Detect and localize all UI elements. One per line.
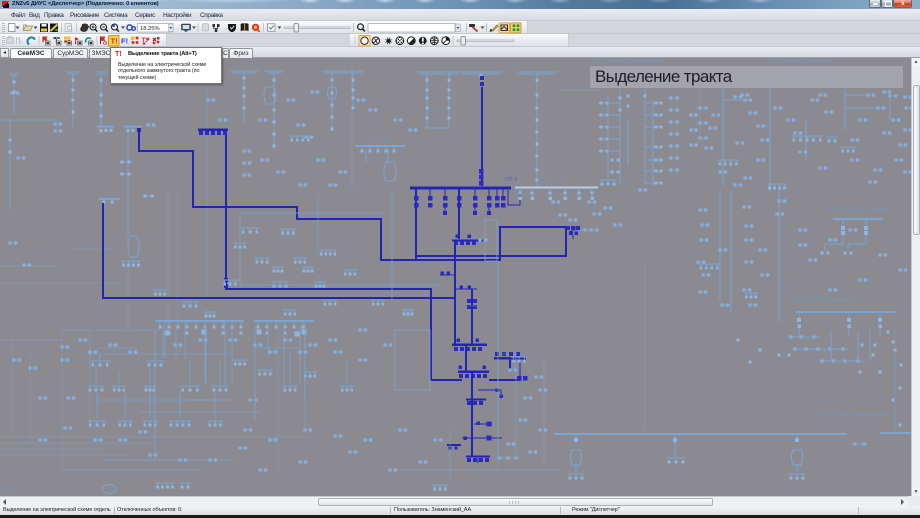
cluster C-Z2 — [826, 137, 838, 142]
switch pairs right-mid — [696, 200, 908, 307]
cluster C-M-4 — [293, 258, 307, 263]
cluster C-N2 — [788, 474, 806, 479]
cluster C-Z5 — [767, 184, 787, 189]
disconnector pair P4 — [474, 421, 492, 426]
svg-text:яч.3: яч.3 — [585, 126, 592, 130]
disconnector pair P2 — [455, 285, 477, 289]
cluster C-Z3 — [840, 147, 856, 152]
cluster C-M-6 — [271, 282, 289, 287]
wire tract vertical trunk — [454, 241, 456, 344]
cluster C-M-14 — [371, 300, 385, 305]
wire tract feed from 110kV via T1 — [481, 87, 483, 186]
cluster C-M-8 — [343, 270, 357, 275]
cluster C-D1-1 — [146, 361, 164, 366]
bus RP-1 feeders down — [98, 325, 307, 400]
wire trunk T13 — [471, 373, 473, 399]
cluster C-G4 — [121, 261, 141, 266]
cluster C-M17 — [319, 250, 337, 255]
cluster C-D2-5 — [257, 370, 273, 375]
cluster C-D2-0 — [87, 421, 107, 426]
generator G2 hexagon — [328, 87, 337, 99]
switch pairs near RP-5 right — [551, 189, 648, 227]
transformer bay TB3 — [792, 434, 803, 472]
title bar — [0, 0, 920, 9]
svg-text:F!: F! — [121, 37, 128, 46]
wire faint grid horizontals — [0, 90, 600, 460]
substation mesh top-right of Novoannenskaya — [778, 330, 890, 363]
station Elevatornaya switchgear — [585, 89, 709, 185]
vertical scrollbar — [911, 58, 920, 496]
cluster C-D2-4 — [207, 421, 223, 426]
cluster C-M-3 — [254, 258, 270, 263]
left column risers — [0, 120, 60, 210]
switch pairs top-left — [8, 91, 418, 267]
switch pairs Zavodskaya extra — [733, 88, 913, 186]
cluster C-M-0 — [240, 228, 260, 233]
svg-text:План ТЭ: План ТЭ — [468, 279, 484, 284]
wire faint grid verticals — [12, 60, 700, 470]
bus B1b 6kV with taps — [124, 127, 142, 132]
wire tract arm B from bus B2 — [103, 203, 455, 298]
svg-text:РП-5: РП-5 — [505, 177, 518, 183]
bus B1a 6kV with taps — [97, 127, 114, 132]
cluster C-B3b — [432, 485, 448, 490]
cluster C-E1b — [599, 180, 617, 185]
cluster C-D2-7 — [233, 360, 247, 365]
cluster C-D1-4 — [144, 386, 156, 391]
svg-text:РП-1: РП-1 — [2, 488, 14, 494]
cluster C-D1-7 — [282, 386, 298, 391]
busbar RP-5 section 1 (selected) — [410, 186, 511, 189]
node riser wires Zavodskaya — [723, 95, 878, 152]
mesh extras bottom-right — [737, 330, 903, 430]
wire tract arm C riser from bus T16 — [226, 131, 431, 380]
breaker cluster Q1 below busbar — [452, 190, 488, 246]
feeder F1 10kV — [66, 72, 80, 127]
oval machine symbol — [102, 485, 116, 494]
generator G4 hexagon — [128, 236, 139, 257]
bus T16 small selected bus — [198, 129, 228, 135]
feeder risers right-mid — [720, 188, 779, 322]
light risers center-bottom — [498, 261, 516, 460]
svg-text:ПС 110/10 кВ "Элеваторная": ПС 110/10 кВ "Элеваторная" — [595, 59, 666, 65]
cluster C-D1-5 — [179, 386, 201, 391]
tie wires lower-left — [0, 330, 230, 460]
cluster C-N1 — [567, 474, 585, 479]
wire faint risers mid — [318, 190, 392, 300]
cluster C-Z1 — [791, 136, 824, 141]
svg-text:РП УкЗ: РП УкЗ — [371, 138, 391, 144]
cluster C-R1 — [698, 264, 720, 269]
feeder F4 10kV — [265, 71, 284, 149]
pair PL1 — [120, 161, 131, 164]
cluster C-M-11 — [181, 302, 199, 307]
breaker minibus P5 — [447, 444, 461, 450]
menu bar — [0, 9, 920, 21]
wire tract busbar drop join — [415, 189, 417, 259]
wire stub right of T11 — [478, 390, 501, 394]
cluster C-M19 — [272, 267, 284, 272]
bus T12 with side taps — [489, 352, 527, 380]
cluster C-M-10 — [283, 310, 297, 315]
bus RP UkZ — [355, 138, 405, 162]
cluster C-CB1 — [511, 357, 527, 362]
enclosure frame E3 big — [240, 213, 441, 285]
wire tract arm A from bus B1 — [137, 128, 141, 132]
station Novoannenskaya main bus — [554, 433, 911, 434]
cluster C-M-9 — [322, 300, 338, 305]
bus B2 feed point of highlighted path — [99, 199, 120, 204]
feeder F10 bus Elevator right — [517, 72, 557, 186]
toolbar row 1 — [0, 21, 920, 34]
svg-text:План ТЭ: План ТЭ — [468, 303, 484, 308]
cluster C-M-13 — [153, 290, 167, 295]
jumper between feeders — [508, 190, 520, 205]
generator G1 hexagon — [264, 87, 276, 104]
cluster C-R2 — [744, 293, 758, 298]
tooltip — [110, 47, 222, 84]
svg-text:яч.5: яч.5 — [585, 150, 592, 154]
feeder F5 double bay — [322, 71, 364, 131]
cluster C-B1 — [155, 483, 175, 488]
cluster C-D2-2 — [142, 421, 158, 426]
switch pairs lower area — [12, 329, 548, 472]
cluster C-D2-6 — [303, 372, 317, 377]
bus T13b — [466, 399, 486, 406]
cluster C-Z4 — [717, 160, 739, 165]
tab bar — [0, 47, 920, 58]
feeder F2 10kV — [94, 72, 108, 134]
bus RP-5 section 2 pale — [515, 179, 598, 200]
cluster C-M18 — [302, 267, 314, 272]
wire riser to G4 — [127, 131, 129, 236]
station Ehovskaya-2 bus — [796, 312, 897, 336]
pair PL3 — [143, 195, 154, 198]
wire trunk T14 — [471, 401, 473, 457]
pair PL2 — [120, 173, 131, 176]
svg-text:ПС 110/10 кВ "Еховская -2": ПС 110/10 кВ "Еховская -2" — [792, 297, 857, 303]
cluster C-M-2 — [233, 243, 247, 248]
svg-text:ПС 110/35/10 кВ "Родники": ПС 110/35/10 кВ "Родники" — [826, 207, 890, 213]
bus RP-1 section 2 — [254, 321, 314, 335]
feeder F9 bus Elevator left — [460, 72, 502, 86]
feeder F3 10kV — [230, 71, 258, 123]
cluster C-M-12 — [204, 312, 216, 317]
terminal bus T14b — [466, 456, 519, 464]
svg-text:Т-2: Т-2 — [860, 239, 866, 243]
tie line with end switches — [462, 436, 502, 441]
svg-text:РП-4: РП-4 — [427, 109, 441, 115]
cluster C-M-1 — [280, 229, 296, 234]
bus T9 RP-5 10kV — [452, 338, 487, 351]
wire trunk T10 — [465, 346, 467, 371]
cluster C-D1-2 — [87, 386, 105, 391]
wire faint lower ties — [400, 428, 560, 480]
svg-text:яч.1: яч.1 — [585, 102, 592, 106]
svg-text:ПС 110/10 кВ "Заводская": ПС 110/10 кВ "Заводская" — [770, 59, 832, 65]
svg-text:T!: T! — [111, 37, 118, 46]
enclosure frame E2 — [395, 330, 430, 390]
wire tract loop return H1 — [416, 228, 566, 256]
horizontal scrollbar — [0, 496, 908, 506]
busbar RP-5 feeders with breakers — [414, 189, 506, 215]
cluster C-D1-0 — [89, 361, 111, 366]
transformer bay TB2 — [666, 434, 686, 464]
svg-text:2 секция 10 кВ: 2 секция 10 кВ — [536, 179, 565, 184]
coupling pair right — [851, 443, 868, 446]
svg-text:18.25%: 18.25% — [140, 26, 160, 32]
bus T11 — [458, 365, 489, 378]
cluster C-D1-3 — [112, 386, 126, 391]
disconnector pair P1 — [440, 271, 455, 275]
node switch cluster T18 — [566, 226, 599, 239]
feeder ladder squares — [72, 95, 622, 158]
transformer bay TB1 — [571, 434, 582, 472]
cluster C-D2-3 — [168, 421, 192, 426]
svg-text:Т-1: Т-1 — [836, 239, 842, 243]
highlight band — [590, 66, 903, 88]
bus RP-1 section 1 — [155, 321, 244, 335]
station Zavodskaya switchgear — [704, 88, 914, 192]
breaker stack P3 — [467, 299, 477, 309]
wire tract vertical trunk 2 — [471, 289, 473, 345]
cluster C-M-5 — [222, 280, 238, 285]
cluster C-M-7 — [314, 282, 326, 287]
generator G3 hexagon — [384, 162, 396, 181]
cluster C-D2-1 — [117, 421, 133, 426]
station Rodniki bus and transformers — [821, 219, 884, 255]
svg-text:соед.: соед. — [500, 351, 510, 356]
wire left arm T15 — [431, 379, 462, 381]
cluster links lower-left lattice — [0, 321, 347, 470]
status bar — [0, 506, 920, 515]
cluster C-D1-8 — [340, 386, 354, 391]
toolbar row 2 — [0, 34, 920, 47]
cluster C-D1-6 — [211, 386, 229, 391]
svg-text:ПС 110/10 кВ "Новоанненская": ПС 110/10 кВ "Новоанненская" — [817, 412, 891, 418]
cluster C-B3 — [289, 136, 311, 141]
feeder F7 RP-4 double bay — [416, 72, 460, 128]
cluster C-B2 — [179, 483, 191, 488]
enclosure frame E1 — [485, 220, 497, 261]
feeder F0 small — [9, 74, 19, 114]
cluster C-M-15 — [402, 310, 414, 315]
